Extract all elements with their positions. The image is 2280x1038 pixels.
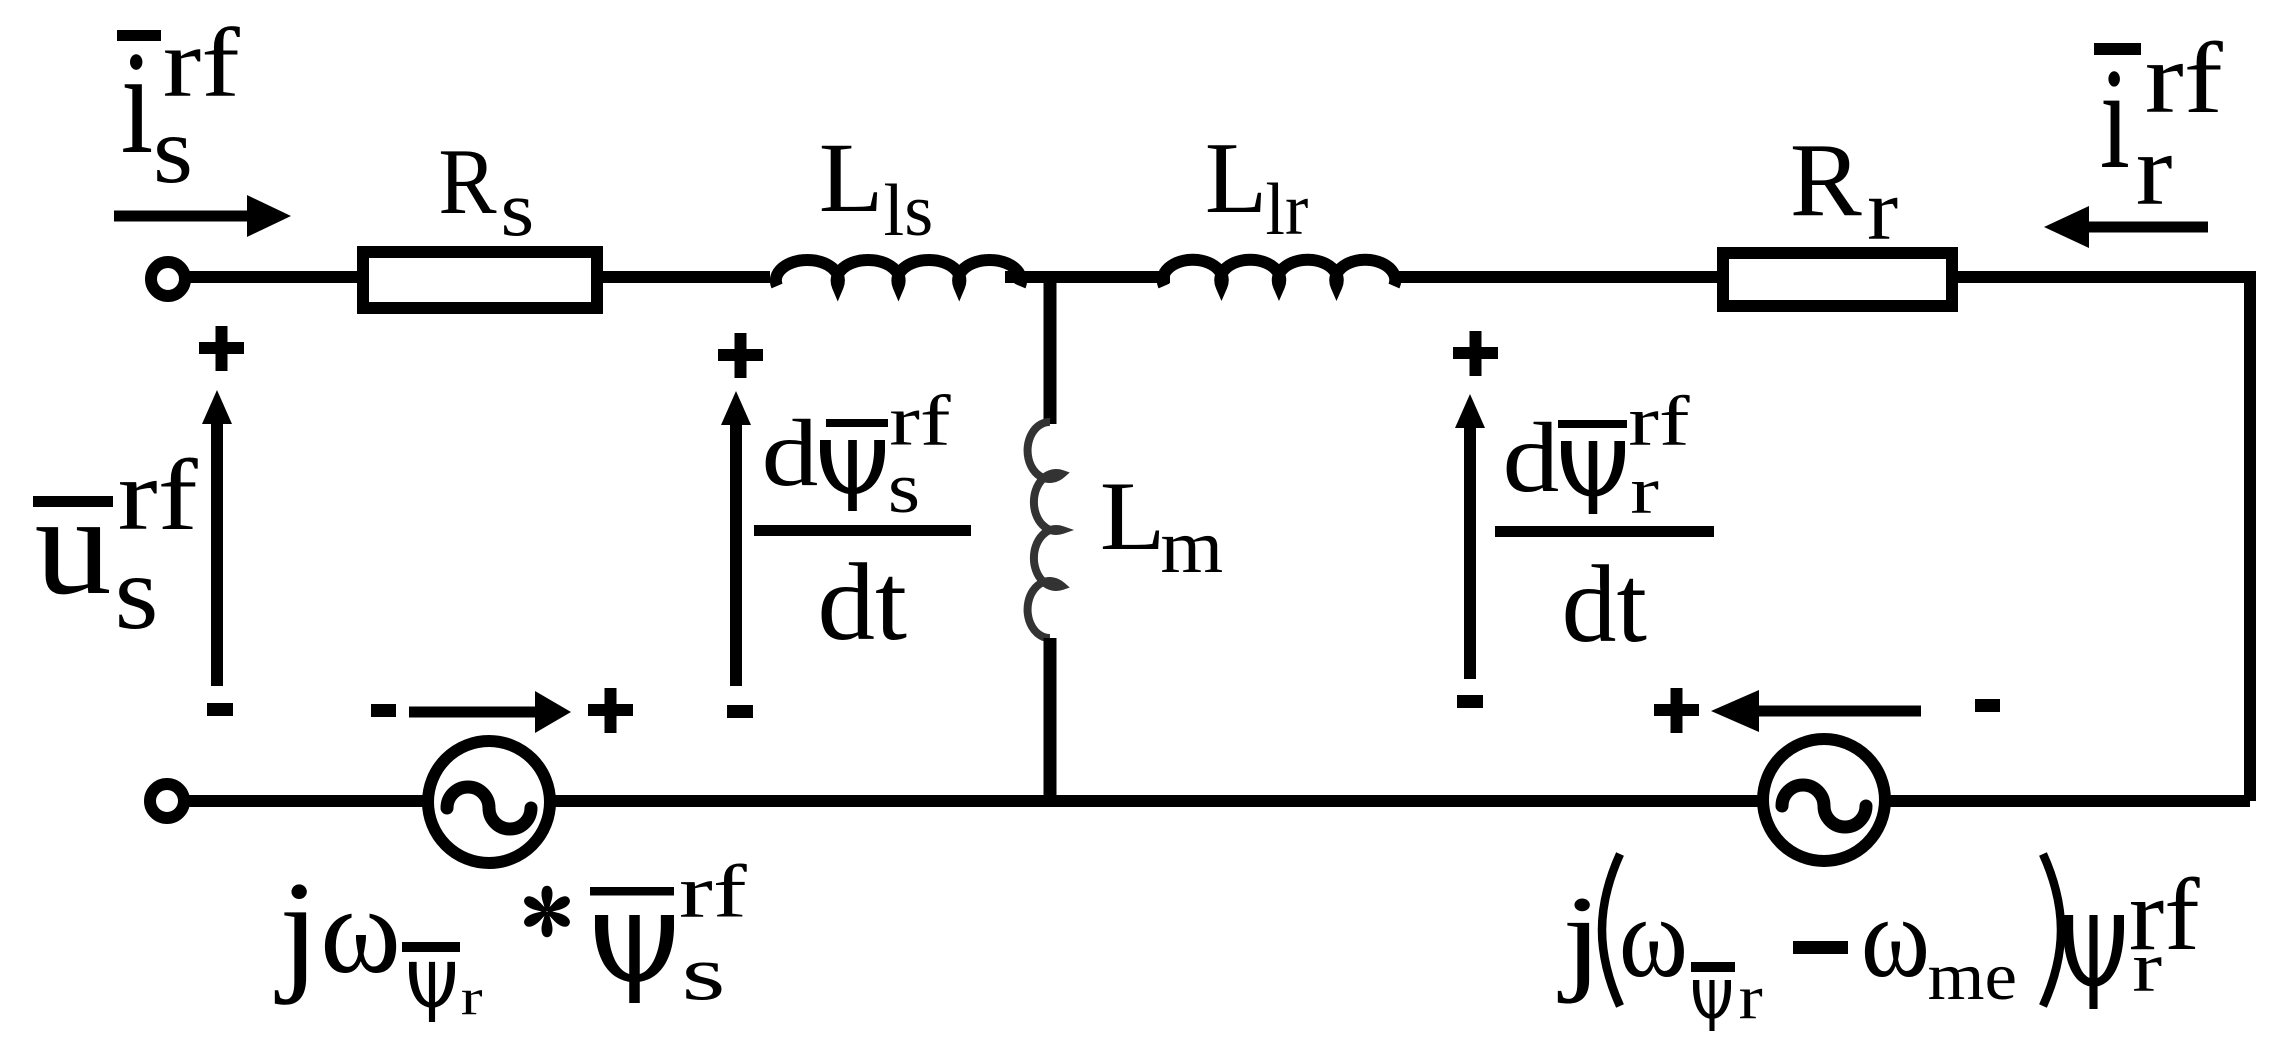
wire top rail middle segment [1005,271,1170,283]
svg-text:r: r [2136,113,2173,226]
arrow left source polarity [409,707,540,718]
svg-text:r: r [1739,963,1763,1032]
svg-text:m: m [1160,504,1223,588]
label u_s^rf [33,440,199,652]
minus right source polarity [1975,699,2000,712]
arrow u_s voltage [211,420,223,686]
AC source right circle [1763,739,1885,861]
wire right rail [2244,277,2256,801]
svg-text:L: L [1100,462,1166,571]
svg-text:dt: dt [1562,543,1647,665]
svg-text:s: s [888,448,920,528]
label jw*psi_s source left [274,850,747,1025]
label i_r^rf [2094,21,2223,226]
svg-text:lr: lr [1266,168,1309,250]
minus u_s [207,703,233,716]
svg-text:u: u [35,466,112,625]
svg-text:d: d [762,399,819,506]
label L_ls [819,123,933,252]
arrow dpsis/dt voltage [730,421,742,686]
label L_lr [1205,122,1308,250]
svg-text:s: s [682,930,726,1017]
arrow i_s current [114,211,252,222]
plus left source polarity [588,688,633,733]
wire bottom rail [186,795,2250,807]
terminal top-left [151,262,185,296]
svg-text:L: L [819,123,884,234]
arrow i_r current [2089,222,2208,233]
AC source right sine [1782,785,1866,827]
svg-text:ls: ls [884,170,934,252]
svg-text:rf: rf [1628,381,1690,460]
svg-text:ω: ω [320,862,401,1000]
plus dpsir/dt [1453,331,1498,376]
svg-text:r: r [461,969,483,1026]
svg-text:r: r [1630,453,1659,527]
svg-text:d: d [1503,403,1560,513]
minus dpsir/dt [1457,695,1483,708]
AC source left sine [447,787,531,829]
svg-text:L: L [1205,122,1267,235]
label j(w-wme)psi_r source right [1558,854,2200,1032]
label R_s [438,129,534,252]
label L_m [1100,462,1223,588]
AC source left circle [428,741,550,863]
arrow dpsir/dt voltage [1464,424,1476,679]
svg-text:ω: ω [1861,874,1930,1001]
plus right source polarity [1654,688,1699,733]
svg-text:s: s [115,533,159,651]
svg-text:r: r [2132,927,2162,1006]
arrow right source polarity [1755,706,1921,717]
svg-text:j: j [274,853,319,1006]
inductor Lm vertical coil [1028,422,1062,638]
label R_r [1790,121,1898,257]
plus u_s [199,326,244,371]
svg-text:i: i [2100,38,2130,199]
resistor R_r [1723,253,1952,306]
svg-text:s: s [501,165,535,252]
svg-text:R: R [1790,121,1862,237]
svg-text:ω: ω [1619,874,1688,1001]
svg-text:j: j [1558,871,1603,1004]
svg-text:i: i [121,20,154,184]
svg-text:me: me [1928,939,2018,1014]
label fraction dpsi_s^rf/dt [754,380,971,664]
inductor L_lr coil [1163,260,1396,286]
wire top rail right segment [1394,271,2256,283]
label i_s^rf [117,9,240,203]
inductor L_ls coil [776,260,1021,286]
svg-text:s: s [153,96,193,203]
svg-text:R: R [438,129,497,234]
svg-text:r: r [1867,163,1898,258]
wire below Lm [1044,638,1057,801]
plus dpsis/dt [718,333,763,378]
wire top rail left segment [186,271,770,283]
node junction between Lls and Llr [1044,277,1057,424]
minus left source polarity [371,704,396,717]
resistor R_s [363,252,597,308]
svg-text:dt: dt [817,542,907,663]
terminal bottom-left [150,784,184,818]
label fraction dpsi_r^rf/dt [1495,381,1714,665]
minus dpsis/dt [727,705,753,718]
svg-text:rf: rf [679,850,747,933]
